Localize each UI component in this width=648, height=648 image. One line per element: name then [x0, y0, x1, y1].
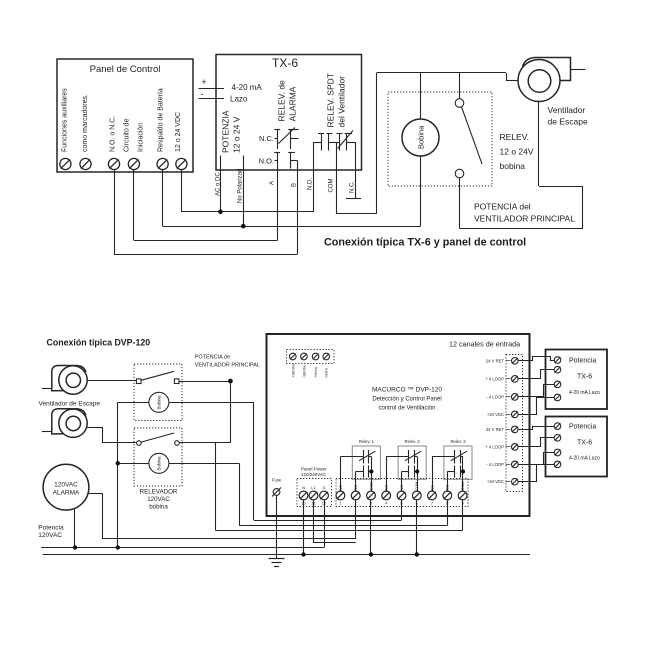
svg-text:COM: COM [369, 482, 373, 491]
svg-text:NO: NO [354, 485, 358, 491]
svg-text:24 V RET: 24 V RET [486, 427, 505, 432]
svg-text:Relev. 1: Relev. 1 [359, 439, 375, 444]
svg-text:N.O. o N.C.: N.O. o N.C. [110, 116, 117, 152]
svg-text:RELEVADOR: RELEVADOR [140, 489, 178, 496]
svg-text:+ 4 LOOP: + 4 LOOP [485, 444, 504, 449]
svg-text:Relev. 3: Relev. 3 [450, 439, 466, 444]
svg-text:120/240VAC: 120/240VAC [301, 472, 327, 477]
svg-text:control de Ventilación: control de Ventilación [378, 406, 435, 412]
svg-text:RELEV. de: RELEV. de [277, 80, 287, 122]
svg-text:Lazo: Lazo [230, 95, 248, 104]
svg-text:ALARMA: ALARMA [53, 489, 80, 496]
svg-text:Potencia: Potencia [38, 525, 64, 532]
svg-text:RELEV.: RELEV. [500, 132, 529, 142]
svg-text:Circuito de: Circuito de [124, 118, 131, 152]
svg-text:AC o DC: AC o DC [215, 172, 221, 196]
svg-text:24 V RET: 24 V RET [486, 358, 505, 363]
svg-text:Respaldo de Batería: Respaldo de Batería [158, 88, 165, 152]
svg-text:N: N [302, 485, 305, 490]
svg-text:1: 1 [339, 501, 342, 506]
svg-text:G: G [322, 485, 325, 490]
svg-text:+24 VDC: +24 VDC [487, 412, 504, 417]
svg-text:120VAC: 120VAC [38, 532, 62, 539]
svg-text:N.C.: N.C. [350, 181, 356, 193]
svg-text:MACURCO ™ DVP-120: MACURCO ™ DVP-120 [372, 387, 442, 394]
svg-text:- 4 LOOP: - 4 LOOP [486, 462, 504, 467]
svg-text:TX-6: TX-6 [577, 374, 592, 381]
svg-text:A: A [270, 181, 276, 185]
svg-text:120VAC: 120VAC [147, 496, 170, 503]
svg-text:-: - [201, 89, 204, 99]
svg-text:- 4 LOOP: - 4 LOOP [486, 394, 504, 399]
svg-text:N.C.: N.C. [259, 134, 274, 143]
svg-text:de Escape: de Escape [548, 117, 588, 127]
svg-text:Bobina: Bobina [157, 395, 162, 410]
svg-text:POTENZIA: POTENZIA [221, 110, 231, 153]
svg-text:NC: NC [339, 485, 343, 491]
svg-text:B: B [292, 183, 298, 187]
svg-text:NO: NO [400, 485, 404, 491]
svg-text:4-20 mA Lazo: 4-20 mA Lazo [569, 390, 600, 396]
svg-text:12 o 24 V: 12 o 24 V [232, 116, 242, 153]
svg-text:4-20 mA Lazo: 4-20 mA Lazo [569, 456, 600, 462]
svg-text:RELEV. SPDT: RELEV. SPDT [326, 73, 336, 128]
svg-text:N.O.: N.O. [259, 157, 274, 166]
svg-text:COM: COM [415, 482, 419, 491]
svg-text:+: + [201, 77, 206, 87]
svg-text:+ 4 LOOP: + 4 LOOP [485, 376, 504, 381]
svg-text:Iniciación: Iniciación [138, 123, 145, 152]
svg-text:L1: L1 [311, 485, 316, 490]
svg-text:Detección y Control Panel: Detección y Control Panel [372, 397, 441, 403]
svg-text:Conexión típica TX-6 y panel d: Conexión típica TX-6 y panel de control [324, 237, 526, 249]
svg-text:bobina: bobina [500, 161, 526, 171]
svg-text:POTENCIA de: POTENCIA de [195, 355, 230, 361]
svg-text:POTENCIA del: POTENCIA del [474, 202, 531, 212]
svg-text:12 o 24V: 12 o 24V [500, 147, 534, 157]
svg-text:120VAC: 120VAC [54, 482, 78, 489]
svg-text:VENTILADOR PRINCIPAL: VENTILADOR PRINCIPAL [474, 214, 575, 224]
svg-text:NO: NO [446, 485, 450, 491]
svg-text:Panel de Control: Panel de Control [90, 64, 161, 75]
svg-text:VENTILADOR PRINCIPAL: VENTILADOR PRINCIPAL [195, 363, 260, 369]
svg-text:4-20 mA: 4-20 mA [232, 83, 263, 92]
svg-text:-Horn: -Horn [324, 368, 329, 378]
svg-text:Relev. 2: Relev. 2 [405, 439, 421, 444]
svg-text:7: 7 [431, 501, 434, 506]
svg-text:4: 4 [385, 501, 388, 506]
svg-text:Bobina: Bobina [417, 125, 426, 149]
svg-text:Ventilador de Escape: Ventilador de Escape [39, 401, 101, 408]
svg-text:como marcadores.: como marcadores. [82, 94, 89, 152]
svg-text:Conexión típica DVP-120: Conexión típica DVP-120 [47, 338, 151, 348]
svg-text:COM: COM [329, 179, 335, 193]
svg-text:del Ventilador: del Ventilador [337, 76, 347, 128]
svg-text:TX-6: TX-6 [577, 440, 592, 447]
svg-text:Fuse: Fuse [272, 478, 282, 483]
svg-text:Panel Power: Panel Power [301, 467, 327, 472]
svg-text:+Strobe: +Strobe [290, 363, 295, 378]
svg-text:NC: NC [430, 485, 434, 491]
svg-text:bobina: bobina [149, 504, 168, 511]
svg-text:N.D.: N.D. [308, 178, 314, 190]
svg-text:12 o 24 VDC: 12 o 24 VDC [175, 112, 182, 152]
svg-text:12 canales de entrada: 12 canales de entrada [449, 340, 520, 349]
svg-text:Ventilador: Ventilador [548, 105, 586, 115]
svg-text:COM: COM [461, 482, 465, 491]
svg-text:Bobina: Bobina [157, 456, 162, 471]
svg-text:No Polarizad: No Polarizad [238, 169, 244, 203]
svg-text:NC: NC [385, 485, 389, 491]
svg-text:-Strobe: -Strobe [301, 364, 306, 378]
svg-text:ALARMA: ALARMA [288, 86, 298, 121]
svg-text:+Horn: +Horn [313, 367, 318, 378]
svg-text:+24 VDC: +24 VDC [487, 479, 504, 484]
svg-text:Potencia: Potencia [569, 358, 596, 365]
svg-text:TX-6: TX-6 [272, 56, 298, 70]
svg-text:Funciones auxiliares: Funciones auxiliares [62, 88, 69, 152]
svg-text:Potencia: Potencia [569, 424, 596, 431]
